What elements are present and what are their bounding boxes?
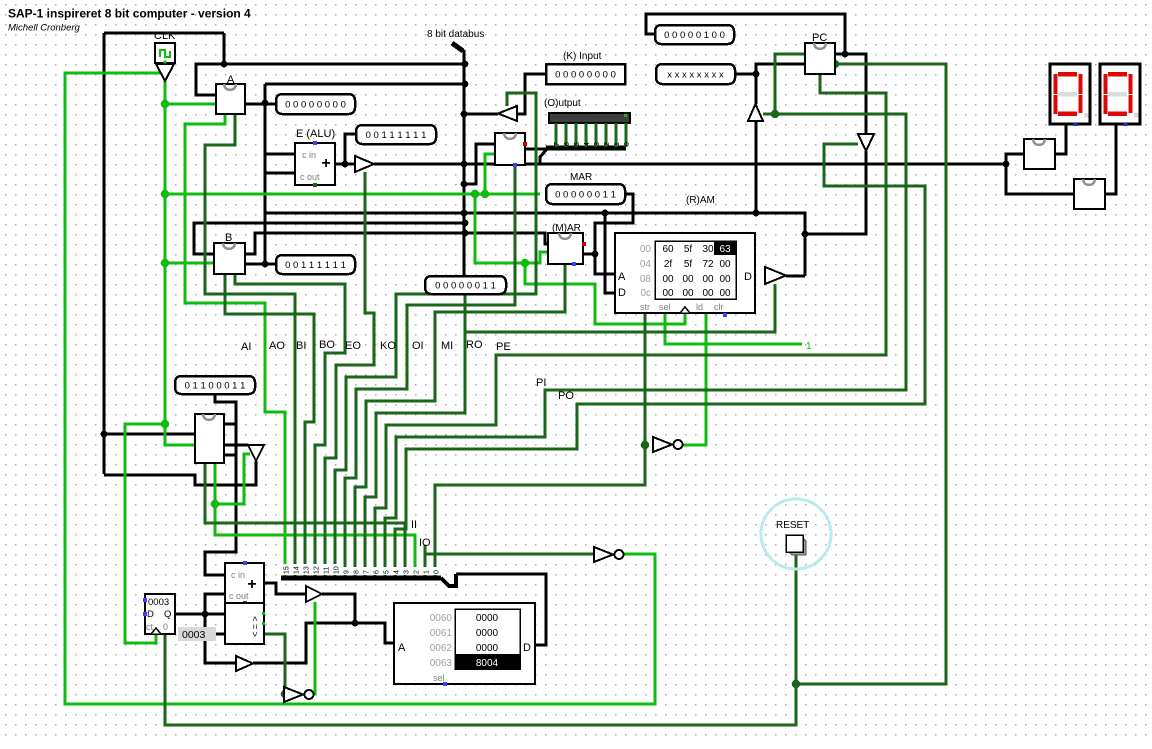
wire reset to DFF: [165, 634, 796, 725]
svg-text:14: 14: [294, 566, 301, 574]
wire y164 to decoder1: [1006, 154, 1024, 164]
ram RAM: [615, 233, 755, 313]
wire adder2 cout pin: [244, 603, 246, 608]
reset button: [789, 538, 806, 555]
svg-text:00: 00: [682, 274, 694, 285]
clock CLK box: [155, 43, 175, 63]
svg-text:IO: IO: [419, 537, 431, 549]
node dark 285,694: [281, 690, 290, 699]
node green 165,104: [161, 100, 170, 109]
node at 465,64: [462, 61, 469, 68]
buffer E output: [355, 156, 374, 172]
register B probe: [276, 255, 355, 274]
not gate line1: [594, 547, 613, 562]
wire PC probe loop: [646, 14, 845, 54]
wire PE control line: [375, 74, 886, 580]
wire K buffer out: [464, 113, 498, 116]
wire to buffer5: [205, 614, 236, 663]
buffer PC up: [748, 104, 763, 121]
wire B.Q to probe: [245, 263, 276, 266]
wire IR probe chain: [205, 394, 236, 575]
wire x756 upper: [756, 64, 805, 104]
node at 756,74: [753, 71, 760, 78]
adder E probe: [356, 125, 436, 144]
wire IO control line: [215, 463, 415, 580]
wire buffer5 out loop: [253, 623, 355, 663]
wire tristate enable: [310, 602, 315, 694]
svg-text:Q: Q: [164, 609, 171, 620]
svg-text:c in: c in: [231, 570, 245, 580]
register MAR: [548, 233, 583, 264]
svg-text:8: 8: [354, 570, 361, 574]
node green 165,263: [161, 259, 170, 268]
svg-text:(K) Input: (K) Input: [563, 51, 602, 62]
wire y84 A output bus line: [265, 83, 465, 86]
svg-text:sel: sel: [433, 673, 445, 683]
wire BI control line: [225, 274, 314, 580]
svg-text:2: 2: [604, 142, 611, 146]
node at 465,84: [462, 81, 469, 88]
wire EO control line: [325, 172, 374, 580]
wire MI control line: [355, 264, 565, 580]
node at 465,184: [461, 181, 468, 188]
node dark 775,114: [771, 110, 780, 119]
svg-text:2: 2: [414, 570, 421, 574]
svg-text:0061: 0061: [430, 628, 453, 639]
wire K input chain: [517, 74, 546, 114]
wire A.Q to probe: [245, 103, 276, 106]
wire PO control line: [395, 144, 925, 580]
svg-text:x x x x x x x x: x x x x x x x x: [667, 70, 724, 81]
svg-text:ld: ld: [696, 302, 703, 312]
wire IR feedback loop: [104, 461, 256, 485]
svg-text:0000: 0000: [476, 628, 499, 639]
wire RO control line: [365, 284, 775, 580]
splitter spine output display: [546, 146, 626, 151]
svg-text:00: 00: [719, 274, 731, 285]
svg-text:D: D: [147, 609, 154, 620]
register IR: [195, 414, 224, 463]
wire xprobe to x756: [735, 73, 756, 76]
wire clk to A: [165, 103, 216, 106]
svg-text:MI: MI: [441, 340, 453, 352]
svg-text:str: str: [640, 302, 650, 312]
svg-text:OI: OI: [412, 340, 424, 352]
LED output display: [549, 113, 630, 123]
svg-text:0063: 0063: [430, 658, 453, 669]
node at 595,254: [592, 251, 599, 258]
node at 465,223: [462, 220, 469, 227]
wire RAM D out buffer loop: [786, 275, 805, 278]
svg-text:SAP-1 inspireret 8 bit compute: SAP-1 inspireret 8 bit computer - versio…: [8, 7, 251, 21]
control bus bar: [281, 576, 441, 581]
node at 265,103: [262, 100, 269, 107]
svg-text:CLK: CLK: [154, 30, 176, 42]
svg-text:sel: sel: [659, 302, 671, 312]
svg-text:E (ALU): E (ALU): [296, 128, 335, 140]
probe PC value: [655, 25, 734, 44]
adder 2: [225, 563, 264, 603]
svg-text:5: 5: [384, 570, 391, 574]
svg-text:30: 30: [702, 244, 714, 255]
wire to ROM A: [355, 623, 394, 643]
svg-text:00: 00: [719, 259, 731, 270]
svg-text:11: 11: [324, 567, 331, 574]
node dark 835,64: [831, 60, 840, 69]
node at 104,434: [101, 431, 108, 438]
comparator: [225, 603, 264, 644]
svg-text:0: 0: [163, 622, 168, 632]
svg-text:(O)utput: (O)utput: [544, 98, 581, 109]
svg-text:72: 72: [702, 259, 714, 270]
svg-text:0 1 1 0 0 0 1 1: 0 1 1 0 0 0 1 1: [185, 381, 246, 392]
wire RAM str line: [644, 313, 647, 445]
node dark 645,445: [641, 441, 650, 450]
svg-text:0 0 0 0 0 0 1 1: 0 0 0 0 0 0 1 1: [435, 281, 496, 292]
wire PI from buffer enable: [763, 113, 775, 116]
wire x265 A.Q vertical: [264, 84, 267, 264]
node at 205,614: [202, 611, 209, 618]
node at 465,164: [461, 161, 468, 168]
wire DFF Q out: [175, 613, 225, 616]
svg-text:0: 0: [624, 142, 631, 146]
wire B bottom left pin: [224, 274, 226, 278]
wire adder2 lower input: [205, 594, 225, 614]
wire AO control line: [205, 114, 295, 580]
wire clk to O reg: [485, 154, 495, 194]
node at 605,213: [602, 210, 609, 217]
buffer 5: [236, 656, 253, 671]
wire E output to buffer: [335, 163, 355, 166]
svg-text:0 0 1 1 1 1 1 1: 0 0 1 1 1 1 1 1: [366, 130, 427, 141]
wire not1 out to RAM ld: [681, 313, 706, 445]
svg-text:0 0 0 0 0 0 0 0: 0 0 0 0 0 0 0 0: [555, 70, 616, 81]
svg-text:c out: c out: [229, 591, 249, 601]
wire y213 RAM bus line: [265, 213, 805, 276]
svg-text:8004: 8004: [476, 658, 499, 669]
not gate line0: [653, 437, 672, 452]
probe MAR: [546, 184, 625, 204]
svg-text:0000: 0000: [476, 643, 499, 654]
svg-text:8 bit databus: 8 bit databus: [427, 29, 484, 40]
decoder 2: [1074, 179, 1105, 209]
wire line0 control: [435, 445, 645, 580]
register A probe: [276, 94, 355, 114]
wire IO to IR buffer enable: [215, 454, 250, 504]
svg-text:c out: c out: [300, 172, 320, 182]
buffer RAM output: [765, 267, 786, 284]
svg-text:RESET: RESET: [776, 520, 809, 531]
svg-text:0062: 0062: [430, 643, 453, 654]
svg-text:clr: clr: [714, 302, 724, 312]
node at 1006,164: [1003, 161, 1010, 168]
control bus bit labels: [283, 564, 290, 575]
svg-text:6: 6: [564, 142, 571, 146]
input K pin: [546, 64, 625, 84]
svg-text:5: 5: [574, 142, 581, 146]
wire PC to down buffer: [845, 54, 866, 134]
wire decoder2 to 7seg2: [1105, 124, 1116, 194]
probe bus xxxxxxxx: [656, 64, 735, 84]
svg-text:08: 08: [640, 274, 652, 285]
svg-text:PI: PI: [536, 377, 546, 389]
reset highlight circle: [761, 499, 831, 569]
wire y164 main display line: [374, 163, 1006, 166]
svg-text:0 0 0 0 0 0 1 1: 0 0 0 0 0 0 1 1: [555, 190, 616, 201]
svg-text:04: 04: [640, 259, 652, 270]
wire y223 B input line: [194, 223, 465, 254]
svg-text:(R)AM: (R)AM: [686, 195, 715, 206]
svg-text:D: D: [523, 642, 531, 654]
wire O reg D input: [464, 144, 495, 184]
svg-text:10: 10: [334, 566, 341, 574]
label 0003 tooltip: [178, 627, 216, 641]
wire y233 B output line: [245, 233, 548, 254]
splitter taper: [540, 149, 547, 164]
svg-text:+: +: [247, 576, 256, 593]
control bus bit verticals: [284, 545, 287, 580]
svg-text:4: 4: [584, 142, 591, 146]
node green 525,263: [521, 259, 530, 268]
svg-text:00: 00: [662, 274, 674, 285]
svg-text:0003: 0003: [148, 597, 169, 608]
7segment display 2: [1100, 64, 1140, 124]
wire RO probe stub: [464, 294, 467, 332]
svg-text:1: 1: [614, 142, 621, 146]
node dark 796,684: [792, 680, 801, 689]
svg-text:c in: c in: [302, 150, 316, 160]
wire OI control line: [345, 165, 515, 580]
svg-text:D: D: [618, 287, 626, 299]
wire AI control line: [185, 114, 285, 580]
buffer K tristate: [498, 106, 517, 121]
svg-text:RO: RO: [466, 339, 483, 351]
wire PC Q out: [835, 53, 845, 56]
svg-text:0060: 0060: [430, 613, 453, 624]
wire decoder1 to 7seg1: [1055, 124, 1066, 154]
wire PC en out: [796, 64, 946, 684]
svg-text:60: 60: [662, 244, 674, 255]
svg-text:0 0 1 1 1 1 1 1: 0 0 1 1 1 1 1 1: [285, 260, 346, 271]
wire clk to B: [165, 262, 214, 265]
svg-text:EO: EO: [345, 340, 361, 352]
node at 355,623: [352, 620, 359, 627]
wire clk to MAR: [475, 194, 548, 263]
adder E (ALU): [295, 143, 335, 185]
svg-text:Michell Cronberg: Michell Cronberg: [8, 23, 81, 34]
wire II control line: [205, 463, 405, 580]
node at 756,213: [753, 210, 760, 217]
svg-text:A: A: [618, 271, 626, 283]
wire clk distribution y194: [165, 193, 540, 196]
node at 845,54: [842, 51, 849, 58]
svg-text:0 0 0 0 0 1 0 0: 0 0 0 0 0 1 0 0: [664, 30, 725, 41]
wire not2 out loop: [623, 553, 655, 556]
probe IR value: [175, 376, 255, 394]
svg-text:0c: 0c: [640, 288, 651, 299]
wire PC loop to RAM: [805, 151, 866, 234]
svg-text:PE: PE: [496, 341, 511, 353]
svg-text:7: 7: [554, 142, 561, 146]
wire IR out3: [225, 454, 236, 457]
node at 805,234: [802, 231, 809, 238]
buffer tristate lower: [306, 586, 322, 602]
rom microcode ROM: [394, 603, 535, 684]
svg-text:3: 3: [594, 142, 601, 146]
svg-text:13: 13: [304, 566, 311, 574]
svg-text:BI: BI: [296, 340, 306, 352]
svg-text:0000: 0000: [476, 613, 499, 624]
svg-text:0003: 0003: [182, 629, 206, 641]
buffer IR output: [248, 445, 264, 461]
wire CLK input loop: [65, 73, 655, 704]
svg-text:15: 15: [284, 566, 291, 574]
svg-text:AO: AO: [269, 340, 285, 352]
wire y64 A input bus line: [196, 64, 465, 95]
node at 465,233: [462, 230, 469, 237]
wire E probe input: [345, 134, 356, 164]
node at 465,213: [461, 210, 468, 217]
wire tristate out to ROM A: [322, 594, 355, 623]
wire E lower input: [265, 172, 295, 175]
wire IR out2 to buffer: [224, 444, 248, 447]
clock output buffer: [156, 64, 174, 81]
svg-text:0: 0: [434, 570, 441, 574]
svg-text:MAR: MAR: [570, 172, 592, 183]
svg-text:7: 7: [364, 570, 371, 574]
svg-text:00: 00: [719, 288, 731, 299]
node at 465,114: [461, 111, 468, 118]
wire MAR reg Q: [583, 253, 595, 256]
wire x224 CLK-A drop: [223, 33, 226, 64]
wire y33 top-left: [104, 32, 224, 35]
wire IR out1: [225, 423, 236, 426]
wire MAR probe out: [595, 194, 633, 274]
svg-text:4: 4: [394, 570, 401, 574]
wire RAM D in drop: [605, 213, 615, 293]
svg-text:BO: BO: [319, 339, 335, 351]
svg-text:0 0 0 0 0 0 0 0: 0 0 0 0 0 0 0 0: [285, 100, 346, 111]
wire x465 main databus: [463, 50, 466, 276]
control bus bar overlay: [281, 576, 441, 581]
decoder 1: [1024, 139, 1055, 169]
svg-text:63: 63: [719, 244, 731, 255]
svg-text:PO: PO: [558, 390, 574, 402]
register B: [214, 243, 245, 274]
wire control bus to ROM D: [456, 574, 546, 645]
svg-text:II: II: [411, 519, 417, 531]
buffer PC down: [858, 134, 874, 151]
wire 8bit databus label pointer: [452, 43, 463, 51]
wire clk to RAM: [525, 263, 685, 324]
svg-text:AI: AI: [241, 341, 251, 353]
svg-text:+: +: [321, 155, 330, 172]
node at 345,164: [342, 161, 349, 168]
svg-text:1: 1: [806, 341, 812, 352]
wire const 0003 to comparator: [215, 633, 225, 636]
not gate comparator: [284, 687, 303, 702]
wire y164 to decoder2: [1006, 164, 1074, 194]
svg-text:KO: KO: [380, 340, 396, 352]
wire down buffer out: [865, 151, 868, 234]
7segment display 1: [1050, 64, 1090, 124]
wire RAM sel line: [665, 313, 802, 344]
svg-text:00: 00: [662, 288, 674, 299]
wire BO control line: [235, 274, 345, 580]
wire x104 left vertical: [103, 33, 106, 474]
svg-text:5f: 5f: [684, 244, 693, 255]
wire line1 control: [425, 554, 596, 580]
wire PI control line: [385, 114, 906, 580]
svg-text:5f: 5f: [684, 259, 693, 270]
node green 165,194: [161, 190, 170, 199]
svg-text:00: 00: [640, 244, 652, 255]
wire reset drop: [795, 553, 798, 684]
svg-text:00: 00: [702, 274, 714, 285]
probe bus value: [425, 276, 506, 294]
wire PC enable from buffer: [775, 54, 805, 114]
svg-text:ct: ct: [146, 622, 154, 632]
wire O reg output: [525, 148, 547, 151]
svg-text:00: 00: [682, 288, 694, 299]
node green 215,504: [211, 500, 220, 509]
wire IR D input: [104, 433, 195, 436]
wire x756 bus riser: [755, 121, 758, 213]
wire comparator out: [264, 634, 285, 694]
svg-text:2f: 2f: [664, 259, 673, 270]
svg-text:00: 00: [702, 288, 714, 299]
node green 475,194: [471, 190, 480, 199]
svg-text:D: D: [744, 271, 752, 283]
node green 485,194: [481, 190, 490, 199]
wire KO control line: [335, 93, 536, 580]
control bus taper: [441, 574, 456, 586]
wire CLK main vertical: [165, 81, 195, 445]
register PC: [805, 43, 835, 74]
svg-text:3: 3: [404, 570, 411, 574]
node at 224,64: [221, 61, 228, 68]
wire E upper input: [265, 153, 295, 156]
node at 265,264: [262, 261, 269, 268]
register A: [216, 84, 245, 114]
register O: [495, 133, 525, 165]
svg-text:9: 9: [344, 570, 351, 574]
node green 165,424: [161, 420, 170, 429]
wire clk to DFF: [125, 424, 165, 643]
svg-text:1: 1: [424, 570, 431, 574]
wire adder2 output: [264, 583, 306, 594]
svg-text:A: A: [398, 642, 406, 654]
svg-text:< = >: < = >: [250, 616, 260, 637]
flipflop DFF 0003: [145, 594, 175, 634]
svg-text:12: 12: [314, 566, 321, 574]
svg-text:6: 6: [374, 570, 381, 574]
